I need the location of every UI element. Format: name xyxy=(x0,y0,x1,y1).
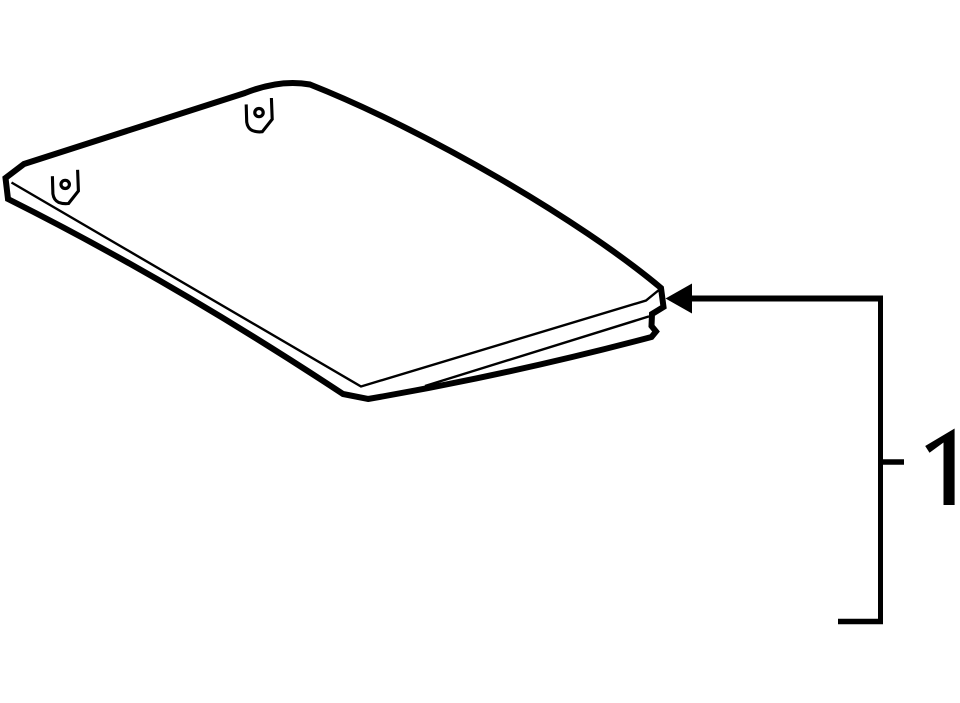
clip symbol top xyxy=(246,98,272,132)
wire label tick xyxy=(881,459,905,465)
wire bracket bottom xyxy=(838,619,883,625)
label 1 xyxy=(925,429,954,506)
arrowhead xyxy=(666,284,693,314)
wire inner edge line left xyxy=(12,183,660,387)
panel outer outline xyxy=(6,83,664,399)
wire bracket vertical xyxy=(878,299,883,622)
wire leader line horizontal xyxy=(680,296,883,302)
clip symbol left xyxy=(52,170,78,204)
wire lower thin edge line xyxy=(425,316,649,386)
